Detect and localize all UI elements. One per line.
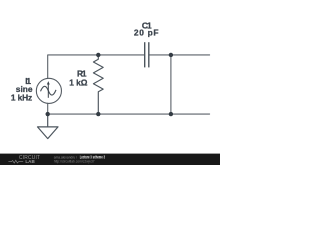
svg-text:LAB: LAB bbox=[25, 159, 34, 164]
junction dot bottom of R1 bbox=[96, 112, 100, 116]
wire top rail right of capacitor bbox=[149, 54, 209, 56]
labels bbox=[11, 20, 159, 102]
svg-text:20 pF: 20 pF bbox=[134, 28, 159, 38]
junction dot bottom of right branch bbox=[169, 112, 173, 116]
svg-text:http://circuitlab.com/c2wjv37: http://circuitlab.com/c2wjv37 bbox=[54, 160, 95, 164]
svg-text:1 kΩ: 1 kΩ bbox=[69, 78, 87, 88]
wire source bottom lead bbox=[47, 103, 49, 114]
capacitor C1 plates bbox=[145, 42, 149, 67]
wire bottom rail bbox=[48, 113, 210, 115]
current source I1 bbox=[36, 78, 61, 103]
footer bar bbox=[0, 154, 220, 165]
ground bbox=[38, 114, 59, 139]
CircuitLab logo wave bbox=[8, 160, 23, 163]
wire top-left corner from source to top rail bbox=[48, 55, 144, 78]
resistor R1 bbox=[93, 55, 103, 114]
junction dot ground node bbox=[46, 112, 50, 116]
wire right vertical branch bbox=[170, 55, 172, 114]
junction dot top of right branch bbox=[169, 53, 173, 57]
arrowhead of current source bbox=[47, 81, 50, 84]
svg-text:1 kHz: 1 kHz bbox=[11, 93, 32, 103]
junction dot top of R1 bbox=[96, 53, 100, 57]
